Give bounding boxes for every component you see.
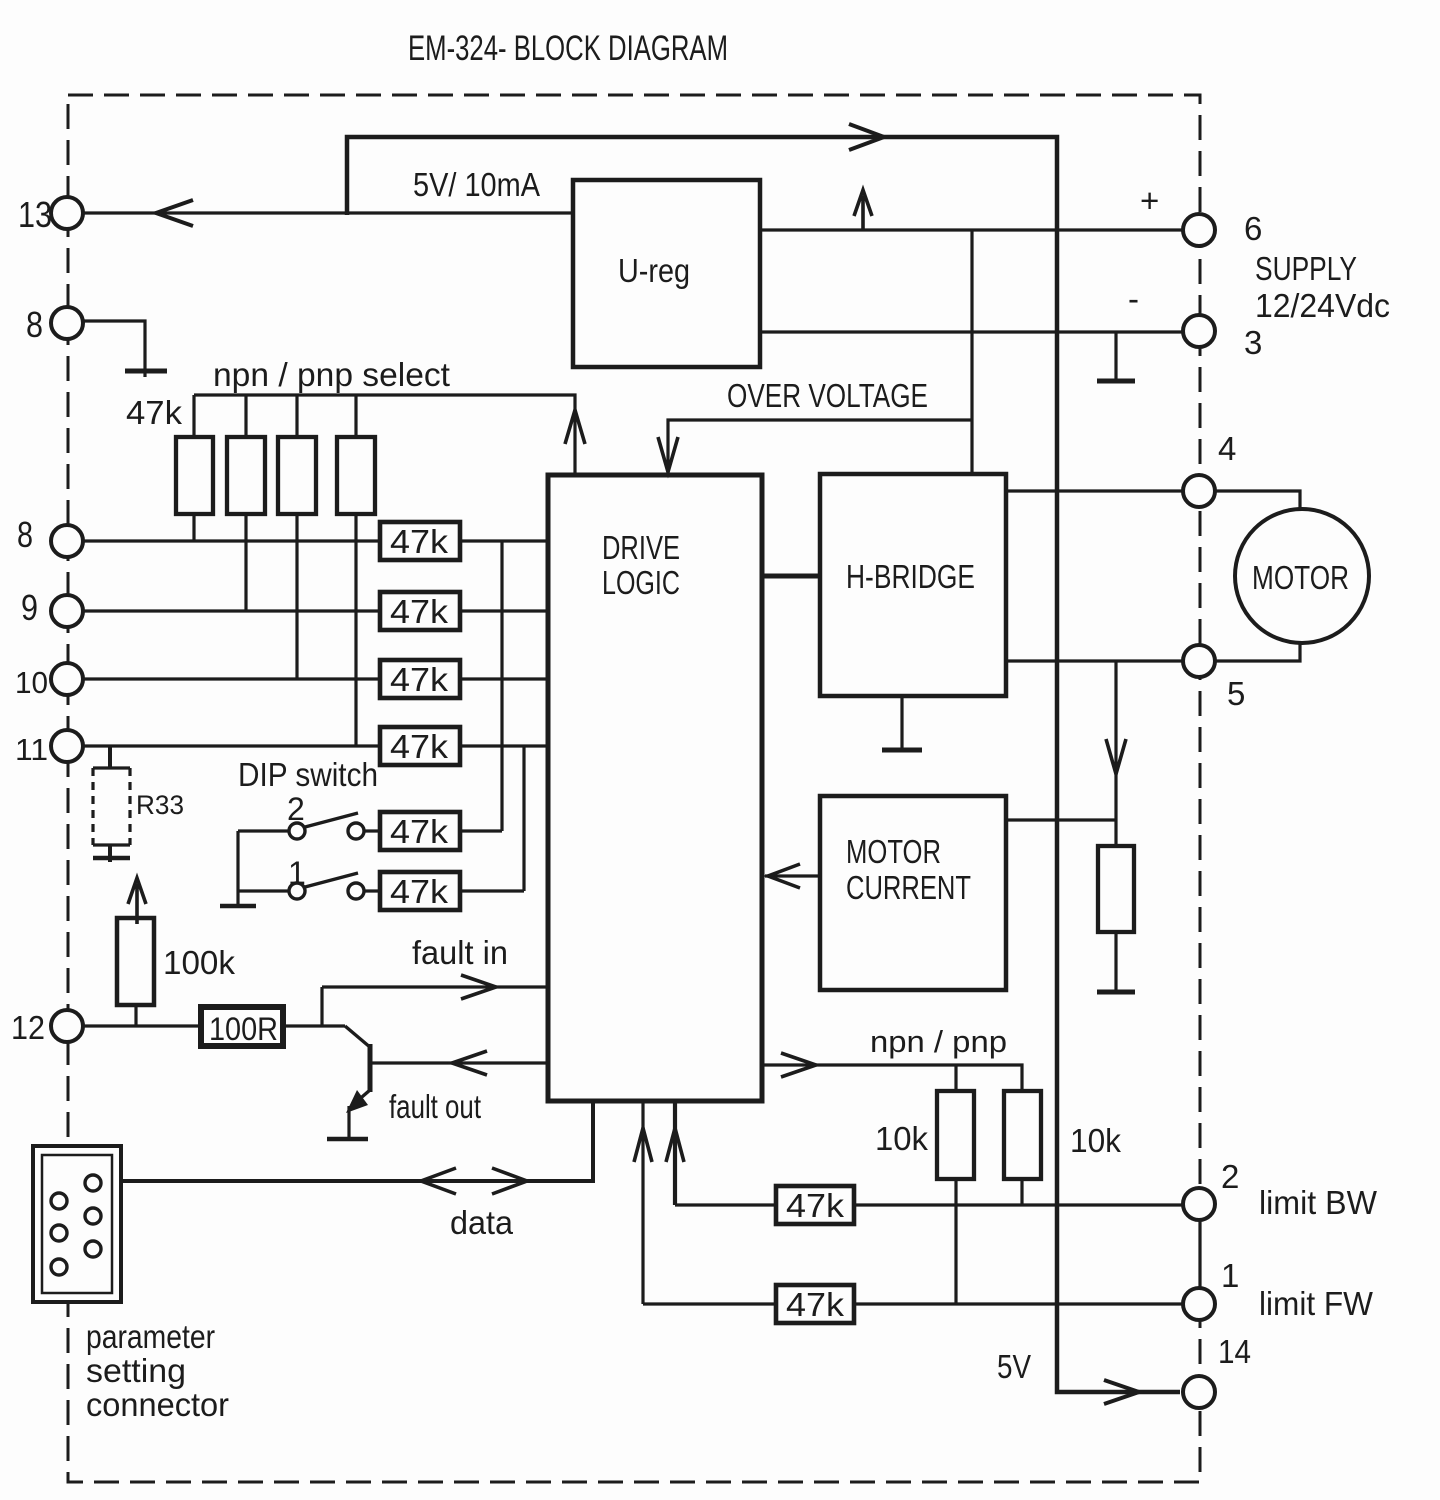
svg-text:47k: 47k <box>390 593 449 630</box>
resistor pullup 1 <box>176 437 213 514</box>
svg-text:3: 3 <box>1244 324 1262 361</box>
wire pin 10 row <box>84 677 548 680</box>
terminal 11 <box>51 730 83 762</box>
arrow left on pin13 wire <box>156 200 193 226</box>
svg-text:8: 8 <box>17 514 33 555</box>
wire vertical row11 to dip1 <box>522 746 525 891</box>
wire drive logic to h-bridge <box>762 574 820 579</box>
pin 8 top ground wire <box>84 321 145 377</box>
terminal 4 <box>1183 475 1215 507</box>
block H-BRIDGE <box>820 474 1006 696</box>
wire motor current to sense <box>1006 818 1116 821</box>
ground Q1 <box>327 1137 368 1142</box>
arrow up above 100k <box>128 878 146 924</box>
resistor 10k right <box>1004 1091 1041 1179</box>
wire npn/pnp out of drive logic <box>762 1065 1022 1091</box>
arrow up into drive logic top <box>565 410 585 444</box>
svg-text:4: 4 <box>1218 430 1236 467</box>
wire pin 9 row <box>84 609 548 612</box>
svg-text:DRIVE: DRIVE <box>602 529 680 566</box>
svg-text:U-reg: U-reg <box>618 252 690 289</box>
ground on minus wire <box>1114 332 1117 379</box>
wire overvoltage sense vertical <box>970 230 973 474</box>
wire fault in <box>322 987 548 1026</box>
wire drive logic stub A to limit FW <box>641 1101 644 1304</box>
svg-text:5V/ 10mA: 5V/ 10mA <box>413 166 540 203</box>
svg-text:connector: connector <box>86 1386 229 1423</box>
wire 5V/10mA thick bus from node A to pin 14 <box>347 137 1180 1392</box>
svg-text:14: 14 <box>1218 1333 1251 1370</box>
svg-text:H-BRIDGE: H-BRIDGE <box>846 558 975 595</box>
resistor sense <box>1098 846 1134 932</box>
ground sense <box>1097 990 1135 995</box>
svg-text:-: - <box>1128 280 1139 317</box>
wire current sense branch <box>1114 661 1117 846</box>
resistor pullup 4 <box>337 437 375 514</box>
wire data <box>121 1101 593 1181</box>
resistor R33 <box>108 746 112 768</box>
svg-text:limit FW: limit FW <box>1259 1285 1374 1322</box>
motor M1 <box>1235 509 1369 643</box>
wire 10k stub <box>954 1065 957 1091</box>
svg-text:parameter: parameter <box>86 1318 215 1355</box>
terminal 12 <box>51 1010 83 1042</box>
arrow down sense <box>1106 739 1126 774</box>
svg-text:fault in: fault in <box>412 934 508 971</box>
svg-text:limit BW: limit BW <box>1259 1184 1378 1221</box>
arrow right data <box>492 1168 527 1194</box>
wire vertical row8 to dip2 <box>500 541 503 831</box>
terminal 13 <box>51 197 83 229</box>
op-block U1 U-reg <box>573 180 760 367</box>
arrow right on 5V wire to pin 14 <box>1104 1380 1139 1404</box>
wire select bus <box>194 395 575 473</box>
terminal 14 <box>1183 1376 1215 1408</box>
block DRIVE LOGIC <box>548 475 762 1101</box>
svg-text:2: 2 <box>1221 1158 1239 1195</box>
svg-text:47k: 47k <box>126 394 183 431</box>
svg-text:setting: setting <box>86 1352 186 1389</box>
svg-text:LOGIC: LOGIC <box>602 564 680 601</box>
svg-text:SUPPLY: SUPPLY <box>1255 250 1357 287</box>
resistor 47k row11 <box>380 727 460 765</box>
terminal 10 <box>51 663 83 695</box>
svg-text:10k: 10k <box>1070 1122 1121 1159</box>
svg-text:100k: 100k <box>163 944 235 981</box>
wire motor current to drive logic <box>765 874 820 877</box>
svg-text:100R: 100R <box>209 1011 278 1047</box>
wire pin13 to U-reg <box>84 211 573 214</box>
wire h-bridge out to pin 4 <box>1006 489 1183 492</box>
svg-text:EM-324- BLOCK DIAGRAM: EM-324- BLOCK DIAGRAM <box>408 29 728 68</box>
svg-text:47k: 47k <box>390 728 449 765</box>
svg-text:+: + <box>1140 182 1159 219</box>
resistor 47k limit FW <box>776 1285 854 1323</box>
wire h-bridge out to pin 5 <box>1006 659 1183 662</box>
resistor 100R <box>201 1007 283 1046</box>
dashed enclosure border <box>68 95 1200 1482</box>
terminal 8 top <box>51 307 83 339</box>
wire bus stubs <box>194 395 356 437</box>
svg-text:MOTOR: MOTOR <box>846 833 941 870</box>
wire pin 4 to motor <box>1215 491 1300 509</box>
terminal 8 <box>51 525 83 557</box>
wire limit FW row <box>643 1302 1183 1305</box>
block MOTOR CURRENT <box>820 796 1006 990</box>
wire U-reg plus output to pin 6 <box>760 228 1183 231</box>
ground <box>125 369 167 374</box>
svg-text:47k: 47k <box>786 1187 845 1224</box>
arrow right on top bus <box>849 124 884 150</box>
wire solid segment between pin2 and pin1 <box>1198 1218 1201 1292</box>
svg-text:5V: 5V <box>997 1348 1031 1385</box>
wire 10k bottoms <box>956 1179 1022 1304</box>
terminal 1 <box>1183 1288 1215 1320</box>
resistor 100k <box>117 918 154 1005</box>
svg-text:R33: R33 <box>136 790 184 820</box>
wire pin 5 to motor <box>1215 644 1300 661</box>
resistor 47k row10 <box>380 660 460 698</box>
switch SW1 <box>289 883 305 899</box>
resistor 47k row9 <box>380 592 460 630</box>
svg-text:fault out: fault out <box>389 1088 481 1125</box>
wire pin 11 row <box>84 744 548 747</box>
resistor pullup 2 <box>227 437 265 514</box>
svg-text:12: 12 <box>11 1009 45 1046</box>
terminal 9 <box>51 595 83 627</box>
svg-text:MOTOR: MOTOR <box>1252 559 1349 596</box>
wire U-reg minus output to pin 3 <box>760 330 1183 333</box>
svg-text:12/24Vdc: 12/24Vdc <box>1255 287 1390 324</box>
resistor 10k left <box>937 1091 974 1179</box>
svg-text:5: 5 <box>1227 675 1245 712</box>
svg-text:CURRENT: CURRENT <box>846 869 971 906</box>
transistor Q1 <box>345 1026 371 1048</box>
svg-text:npn / pnp select: npn / pnp select <box>213 356 450 393</box>
arrow left data <box>421 1168 456 1194</box>
wire limit BW row <box>675 1203 1183 1206</box>
svg-text:1: 1 <box>1221 1257 1239 1294</box>
resistor 47k limit BW <box>776 1186 854 1224</box>
arrow up on plus wire <box>854 190 872 230</box>
wire pin 12 <box>84 1024 345 1027</box>
ground dip <box>236 891 239 904</box>
svg-text:47k: 47k <box>390 873 449 910</box>
svg-text:47k: 47k <box>786 1286 845 1323</box>
switch SW2 <box>289 823 305 839</box>
terminal 5 <box>1183 645 1215 677</box>
resistor pullup 3 <box>278 437 316 514</box>
svg-text:11: 11 <box>15 732 48 767</box>
wire drive logic stub B to limit BW <box>673 1101 677 1205</box>
wire resistor bottoms <box>194 514 356 746</box>
svg-text:OVER VOLTAGE: OVER VOLTAGE <box>727 377 928 414</box>
svg-text:npn / pnp: npn / pnp <box>870 1024 1007 1059</box>
svg-text:10k: 10k <box>875 1120 928 1157</box>
terminal 3 <box>1183 315 1215 347</box>
resistor 47k dip1 <box>380 872 460 910</box>
svg-text:10: 10 <box>15 665 48 700</box>
arrow down into drive logic <box>658 437 678 472</box>
wire OVER VOLTAGE to drive logic <box>668 420 972 470</box>
svg-text:9: 9 <box>21 587 38 628</box>
svg-text:13: 13 <box>18 194 52 235</box>
ground under h-bridge <box>900 696 903 748</box>
svg-text:DIP switch: DIP switch <box>238 756 378 793</box>
wire fault out <box>372 1061 548 1064</box>
connector J1 parameter setting <box>33 1146 121 1302</box>
svg-text:47k: 47k <box>390 661 449 698</box>
svg-text:6: 6 <box>1244 210 1262 247</box>
resistor 47k row8 <box>380 522 460 560</box>
svg-text:47k: 47k <box>390 813 449 850</box>
svg-text:8: 8 <box>26 304 43 345</box>
terminal 6 <box>1183 214 1215 246</box>
svg-text:data: data <box>450 1204 514 1241</box>
terminal 2 <box>1183 1188 1215 1220</box>
resistor 47k dip2 <box>380 812 460 850</box>
wire pin 8 row <box>84 539 548 542</box>
svg-text:47k: 47k <box>390 523 449 560</box>
